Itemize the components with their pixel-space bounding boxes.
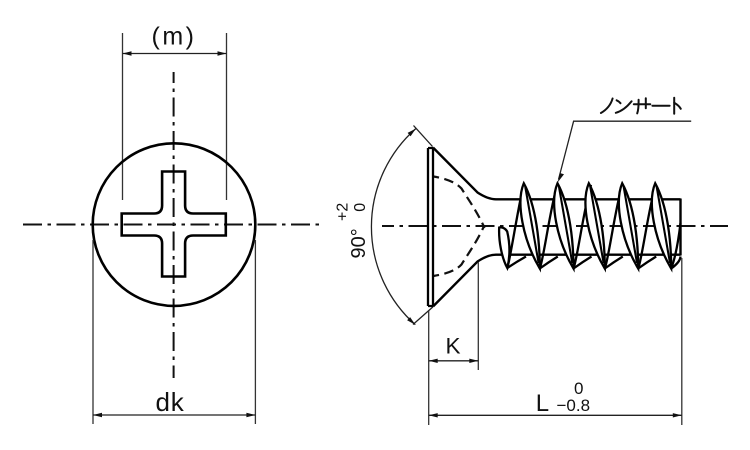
thread crest 3	[585, 183, 604, 268]
thread 3 back diagonal	[605, 185, 623, 269]
90 degree dimension arc	[371, 129, 415, 325]
thread crest 2	[554, 183, 573, 268]
svg-text:dk: dk	[155, 387, 184, 417]
centerline horizontal (right view)	[382, 225, 728, 227]
phillips recess cross	[122, 172, 226, 277]
head circle dk	[93, 143, 256, 306]
thread 5 bottom arc	[671, 257, 680, 269]
centerline vertical (left view)	[173, 72, 175, 378]
extension line m-left	[122, 33, 124, 200]
svg-text:0: 0	[352, 203, 369, 212]
label nonsert (katakana drawn)	[601, 98, 681, 114]
thread 3 bottom arc	[605, 257, 623, 269]
leader line nonsert	[559, 121, 692, 179]
svg-text:L: L	[536, 390, 549, 417]
head face	[428, 148, 433, 307]
flank extension top	[414, 126, 433, 147]
centerline horizontal (left view)	[23, 224, 324, 226]
dimension line K	[429, 360, 479, 362]
extension line K/L-left	[428, 311, 430, 425]
thread 1 back diagonal	[540, 185, 558, 269]
hidden recess flank upper (dashed)	[434, 177, 485, 229]
extension line dk-right	[254, 240, 256, 424]
thread crest 1	[520, 183, 539, 268]
svg-text:90°: 90°	[348, 228, 370, 258]
thread 5 back diagonal	[671, 223, 680, 269]
thread 4 back diagonal	[638, 185, 656, 269]
end cap	[679, 199, 681, 256]
dimension line L	[429, 414, 682, 416]
thread crest 4	[619, 183, 638, 268]
extension line L-right	[681, 258, 683, 425]
thread 2 bottom arc	[574, 257, 592, 269]
dimension line (m)	[123, 53, 227, 55]
extension line dk-left	[92, 240, 94, 424]
flank extension bottom	[413, 307, 433, 325]
extension line m-right	[226, 33, 228, 200]
svg-text:K: K	[445, 334, 460, 359]
top root line with head top slant	[433, 148, 681, 200]
thread 1 bottom arc	[540, 257, 558, 269]
thread start bottom arc	[507, 257, 526, 269]
svg-text:−0.8: −0.8	[557, 396, 591, 415]
label 90deg +2/0 (rotated)	[334, 203, 370, 259]
thread crest 5	[652, 183, 671, 268]
dimension line dk	[93, 414, 255, 416]
hidden recess flank lower (dashed)	[434, 225, 485, 276]
svg-text:(m): (m)	[152, 23, 197, 51]
thread 4 bottom arc	[638, 257, 656, 269]
bottom root line with head bottom slant	[433, 255, 681, 307]
thread start leaf	[499, 227, 509, 268]
extension line K-right	[477, 262, 479, 370]
thread start back diagonal	[507, 185, 523, 268]
svg-text:+2: +2	[334, 203, 351, 221]
thread 2 back diagonal	[574, 185, 592, 269]
